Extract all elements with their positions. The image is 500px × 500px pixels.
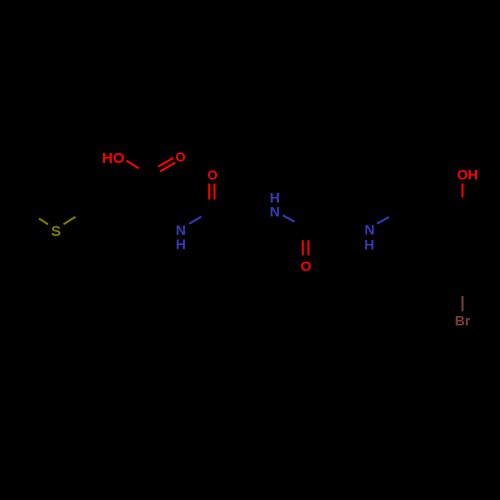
svg-text:O: O — [301, 258, 312, 274]
svg-text:N: N — [364, 222, 374, 238]
bond O-C of carboxylic acid (O half) — [126, 161, 138, 169]
svg-text:Br: Br — [455, 313, 471, 329]
bond CH3-S (S half) — [39, 219, 48, 225]
svg-text:H: H — [364, 237, 374, 253]
double bond C=O of carboxylic acid line 1 — [158, 158, 173, 167]
double bond C=O of amide 2 line 2 — [307, 240, 309, 255]
bond S-CH2 (S half) — [64, 217, 76, 225]
bond O-ring of phenol (O half) — [462, 184, 464, 198]
bond N-C carbonyl of amide 1 (N half) — [189, 217, 201, 224]
svg-text:O: O — [175, 149, 185, 164]
svg-text:O: O — [207, 167, 217, 182]
double bond C=O of carboxylic acid line 2 — [160, 163, 175, 172]
svg-text:H: H — [176, 236, 186, 252]
svg-text:N: N — [270, 204, 280, 220]
double bond C=O of amide 1 line 2 — [214, 184, 216, 200]
svg-text:OH: OH — [457, 167, 478, 183]
svg-text:HO: HO — [102, 150, 125, 167]
bond N-CH2 benzylic (N half) — [377, 217, 389, 224]
bond N-C carbonyl of amide 2 (N half) — [283, 215, 295, 222]
double bond C=O of amide 2 line 1 — [302, 240, 304, 255]
double bond C=O of amide 1 line 1 — [208, 184, 210, 200]
bond Br-ring (Br half) — [462, 296, 464, 311]
svg-text:S: S — [51, 223, 61, 240]
